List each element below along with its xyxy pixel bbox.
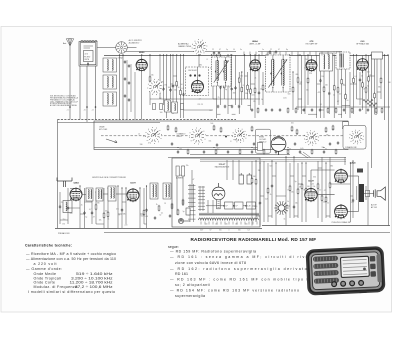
svg-text:0,1: 0,1 — [325, 149, 327, 151]
svg-text:FILTRO: FILTRO — [84, 56, 91, 58]
wire: sub-bus y99 — [150, 98, 260, 100]
volume control box — [256, 129, 271, 153]
wire: heater line with dots — [206, 205, 250, 207]
tube V3 6AT6 — [306, 59, 317, 72]
svg-text:100: 100 — [160, 112, 163, 114]
svg-text:47: 47 — [278, 49, 280, 51]
magic eye tube — [271, 137, 286, 155]
svg-text:5p: 5p — [225, 89, 227, 91]
svg-text:— RD 159 MF: Radiofono supe: — RD 159 MF: Radiofono supermeraviglia — [170, 249, 256, 253]
svg-text:RIV. RAPP. BF: RIV. RAPP. BF — [306, 42, 319, 45]
wire: long bus y157 — [168, 157, 346, 159]
svg-text:330: 330 — [378, 87, 381, 89]
svg-text:AP 105: AP 105 — [371, 206, 377, 209]
svg-text:a 220 volt: a 220 volt — [34, 262, 57, 266]
svg-text:— RD 161 : senza gamma a: — RD 161 : senza gamma a MF; circuiti di… — [170, 255, 317, 259]
svg-text:4,7: 4,7 — [337, 101, 339, 103]
svg-text:5p: 5p — [226, 49, 228, 51]
electrolytic capacitor 2 — [247, 175, 252, 184]
svg-text:68k: 68k — [296, 74, 299, 76]
svg-text:GRUPPO A.F. FM E CONVERT: GRUPPO A.F. FM E CONVERTITORE MF — [92, 176, 127, 179]
loudspeaker — [374, 187, 386, 200]
svg-text:25: 25 — [333, 95, 335, 97]
svg-text:220: 220 — [309, 73, 312, 75]
svg-text:RADIORICEVITORE RADIOMARELLI M: RADIORICEVITORE RADIOMARELLI Mod. RD 157… — [191, 237, 317, 242]
FM IF parts — [158, 205, 160, 212]
junction dots heater — [223, 205, 225, 207]
gang chain box — [94, 121, 348, 150]
junction dots mid bus — [177, 147, 178, 148]
svg-text:220: 220 — [197, 104, 200, 106]
svg-text:47k: 47k — [326, 134, 329, 136]
wire: antenna lead — [69, 46, 71, 120]
mains plug — [178, 218, 190, 223]
svg-text:220: 220 — [174, 90, 177, 92]
svg-text:100: 100 — [307, 186, 310, 188]
wire: V1 drop — [141, 71, 143, 120]
power wires — [176, 168, 178, 215]
filter box details — [84, 45, 94, 47]
svg-text:330: 330 — [97, 202, 100, 204]
svg-text:6,3: 6,3 — [248, 230, 250, 232]
IF transformer MF1 — [212, 57, 232, 86]
svg-text:6AQ5: 6AQ5 — [350, 162, 356, 165]
svg-text:segue:: segue: — [168, 245, 179, 249]
svg-text:AL 3° GRUPPO: AL 3° GRUPPO — [129, 39, 143, 42]
svg-text:J.2: J.2 — [92, 110, 94, 112]
svg-text:4,7: 4,7 — [339, 93, 341, 95]
lower parts row right — [251, 108, 253, 112]
wire: mid bus y147 — [94, 147, 258, 149]
tick row between buses — [243, 52, 245, 56]
svg-text:1k: 1k — [287, 201, 289, 203]
svg-text:ONDE: ONDE — [99, 127, 105, 129]
resistor zigzag right — [363, 99, 373, 102]
wire: verticals near output — [367, 162, 369, 226]
coil box small 1 — [165, 100, 171, 112]
svg-text:BF FINALE MA: BF FINALE MA — [356, 42, 369, 45]
wire: box to CV — [97, 47, 116, 49]
FM dipole antenna — [57, 178, 72, 188]
svg-text:Caratteristiche tecniche:: Caratteristiche tecniche: — [25, 243, 72, 247]
svg-text:6BE6: 6BE6 — [139, 52, 145, 54]
svg-text:0,1: 0,1 — [351, 202, 353, 204]
coil unit L3 onde corte — [103, 92, 117, 106]
svg-text:500: 500 — [253, 176, 256, 178]
coil unit L1 onde medie — [103, 58, 117, 72]
svg-text:5p: 5p — [295, 181, 297, 183]
svg-text:330: 330 — [313, 177, 316, 179]
tube V8 6AB4 AF FM — [70, 187, 83, 201]
svg-text:125: 125 — [215, 223, 218, 225]
svg-text:50: 50 — [346, 100, 348, 102]
rectifier base stem — [217, 200, 221, 209]
svg-text:250: 250 — [305, 59, 308, 61]
svg-text:15k: 15k — [208, 141, 211, 143]
svg-text:1° MF: 1° MF — [213, 55, 219, 57]
svg-text:100: 100 — [179, 149, 182, 151]
svg-text:47: 47 — [148, 142, 150, 144]
svg-text:8: 8 — [243, 85, 244, 87]
svg-text:PRESA FONO: PRESA FONO — [58, 232, 70, 235]
svg-text:320: 320 — [238, 230, 241, 232]
radio lower grille — [314, 278, 339, 284]
svg-text:25: 25 — [61, 202, 63, 204]
svg-text:15k: 15k — [313, 186, 316, 188]
mid band parts — [167, 125, 169, 131]
svg-text:8: 8 — [288, 189, 289, 191]
terminal ladder — [188, 184, 196, 222]
coil unit L fm1 — [86, 188, 93, 201]
svg-text:2k: 2k — [138, 134, 140, 136]
svg-text:1n: 1n — [262, 49, 264, 51]
pot box — [258, 143, 263, 151]
coil unit L fm2 — [96, 188, 103, 201]
svg-text:8: 8 — [207, 59, 208, 61]
svg-text:22: 22 — [270, 49, 272, 51]
svg-text:220: 220 — [125, 224, 128, 226]
svg-text:5p: 5p — [183, 211, 185, 213]
svg-text:10: 10 — [233, 49, 235, 51]
small box row y103 — [153, 104, 156, 110]
svg-text:Modulaz. di Frequenza: Modulaz. di Frequenza — [34, 285, 78, 289]
oscillator dashed box — [186, 67, 209, 96]
wire: lower AVC bus — [58, 122, 161, 124]
svg-text:0,05: 0,05 — [300, 148, 303, 150]
svg-text:330: 330 — [233, 93, 236, 95]
wire: selector stem — [198, 54, 200, 67]
svg-text:0,05: 0,05 — [265, 198, 268, 200]
svg-text:supermeraviglia: supermeraviglia — [175, 294, 205, 298]
svg-text:10k: 10k — [295, 202, 298, 204]
svg-text:10k: 10k — [151, 74, 154, 76]
wire: gang diagonals — [301, 153, 309, 158]
svg-text:500: 500 — [269, 166, 272, 168]
svg-text:J.0: J.0 — [84, 110, 86, 112]
svg-text:3n: 3n — [240, 49, 242, 51]
svg-text:160: 160 — [235, 223, 238, 225]
junction dot gang — [225, 136, 227, 138]
tube V2 6BA6 — [250, 59, 261, 72]
FM balun box — [63, 201, 72, 213]
svg-text:100: 100 — [325, 85, 328, 87]
radio push buttons — [370, 256, 376, 262]
wire: FM ground bus — [55, 228, 262, 230]
svg-text:4,7: 4,7 — [199, 98, 201, 100]
oscillator padder dots — [189, 74, 191, 76]
antenna AM — [66, 38, 74, 46]
svg-text:5p: 5p — [143, 136, 145, 138]
svg-text:2k: 2k — [270, 194, 272, 196]
tube V7 6AQ5 — [334, 204, 347, 219]
svg-text:47: 47 — [300, 82, 302, 84]
svg-text:MAGICO: MAGICO — [259, 141, 267, 144]
mains transformer windings — [199, 213, 260, 220]
primary winding ladder — [198, 186, 205, 211]
svg-text:OSCILLAT.: OSCILLAT. — [188, 69, 197, 72]
svg-text:47k: 47k — [318, 92, 321, 94]
svg-text:68k: 68k — [235, 139, 238, 141]
svg-text:— Gamme d’onde:: — Gamme d’onde: — [26, 267, 62, 271]
wire: AVC dashed bus — [58, 119, 237, 121]
svg-text:AI CAPI DELLA BOBINA STESSA: AI CAPI DELLA BOBINA STESSA — [50, 104, 77, 107]
svg-text:15k: 15k — [186, 165, 189, 167]
svg-text:50: 50 — [181, 84, 183, 86]
svg-text:47: 47 — [192, 179, 194, 181]
wire: top HT bus — [104, 55, 388, 57]
wire lattice: upper RF/IF band — [149, 54, 382, 118]
svg-text:4,7: 4,7 — [319, 189, 321, 191]
rectifier tube 5Y3 — [212, 183, 225, 200]
svg-text:1k: 1k — [107, 219, 109, 221]
svg-text:50: 50 — [159, 215, 161, 217]
wire lattice: FM strip — [59, 185, 148, 228]
svg-text:ALTOP.: ALTOP. — [371, 204, 378, 207]
svg-text:0,05: 0,05 — [251, 95, 254, 97]
MF1 top trimmers — [213, 51, 215, 55]
wire: box drop 2 — [86, 66, 88, 122]
svg-text:500: 500 — [210, 123, 213, 125]
svg-text:12AT7: 12AT7 — [130, 182, 137, 185]
rotary switch wafer S4 — [304, 131, 319, 146]
svg-text:22: 22 — [212, 49, 214, 51]
small box gang right — [343, 122, 349, 129]
row parts under gang — [177, 150, 179, 154]
wire: right edge vertical — [388, 55, 390, 226]
heater tap box — [247, 202, 256, 209]
svg-text:CAMBIO TENS.: CAMBIO TENS. — [178, 45, 192, 48]
rotary switch wafer cambio tensione — [192, 39, 208, 55]
top right box — [372, 52, 383, 59]
svg-text:15k: 15k — [253, 101, 256, 103]
tube V9 12AT7 conv FM — [127, 188, 140, 202]
coil unit L if1 — [150, 183, 158, 199]
radio cabinet illustration — [306, 246, 386, 295]
svg-text:6BA6: 6BA6 — [252, 40, 258, 43]
svg-text:2k: 2k — [254, 77, 256, 79]
wire: bus y154.5 — [190, 154, 290, 156]
tube V4 6V6 — [356, 58, 368, 72]
svg-text:15k: 15k — [240, 75, 243, 77]
svg-text:1k: 1k — [261, 99, 263, 101]
svg-text:25: 25 — [201, 104, 203, 106]
svg-text:100: 100 — [168, 87, 171, 89]
svg-text:47: 47 — [324, 190, 326, 192]
svg-text:— Ricevitore MA - MF a 9: — Ricevitore MA - MF a 9 valvole + occhi… — [26, 252, 116, 256]
svg-text:100: 100 — [367, 71, 370, 73]
svg-text:I modelli similari si diff: I modelli similari si differenziano per … — [28, 290, 115, 294]
selenium rectifier starburst — [274, 201, 288, 215]
svg-text:25: 25 — [259, 204, 261, 206]
svg-text:10k: 10k — [174, 85, 177, 87]
output transformer — [359, 184, 365, 202]
svg-text:25: 25 — [164, 203, 166, 205]
svg-text:1k: 1k — [283, 218, 285, 220]
svg-text:140: 140 — [225, 223, 228, 225]
coil unit L if2 — [163, 183, 171, 199]
filter choke — [336, 52, 350, 69]
svg-text:0: 0 — [229, 230, 230, 232]
wire: FM links — [70, 187, 76, 189]
fuse — [186, 208, 190, 215]
rotary switch wafer S2 — [189, 128, 206, 145]
wire: upper parallel bus — [120, 51, 237, 53]
switch arrow — [106, 139, 117, 143]
ballast resistor 2 — [182, 166, 185, 176]
radio dial window — [340, 256, 369, 277]
svg-text:2° MF: 2° MF — [267, 53, 273, 55]
electrolytic capacitor 1 — [239, 175, 244, 184]
svg-text:4 MΩ: 4 MΩ — [118, 58, 123, 60]
svg-text:50: 50 — [289, 149, 291, 151]
svg-text:47,5: 47,5 — [85, 54, 89, 56]
svg-text:ALL’ANODO: ALL’ANODO — [129, 42, 140, 45]
svg-text:250: 250 — [62, 219, 65, 221]
svg-text:250: 250 — [254, 206, 257, 208]
wire: splitter link — [317, 194, 334, 196]
svg-text:320: 320 — [219, 230, 222, 232]
svg-text:2k: 2k — [156, 204, 158, 206]
svg-text:0,05: 0,05 — [283, 97, 286, 99]
svg-text:5Y3-GT: 5Y3-GT — [219, 164, 226, 166]
coil unit L2 onde tropicali — [103, 75, 117, 89]
cap row y105 — [217, 105, 219, 109]
rotary switch wafer S1b — [145, 127, 162, 144]
wire: bottom return bus — [104, 232, 390, 234]
wire: coil stack verticals — [119, 55, 121, 120]
tuning condenser CV — [116, 42, 128, 54]
svg-text:50: 50 — [327, 203, 329, 205]
svg-text:— Alimentazione con c.a. 5: — Alimentazione con c.a. 50 Hz per tensi… — [26, 257, 116, 261]
svg-text:110: 110 — [205, 223, 208, 225]
ballast resistor 1 — [176, 166, 179, 176]
wire lattice: audio band — [251, 156, 354, 225]
wire: box drop 3 — [95, 66, 97, 120]
radio right edge shade — [376, 254, 382, 282]
svg-text:RD 161: RD 161 — [175, 272, 188, 276]
MF2 top trimmers — [269, 50, 271, 54]
svg-text:6AB4: 6AB4 — [73, 182, 79, 185]
coil box small 2 — [172, 102, 178, 113]
svg-text:RADDRIZZATRICE: RADDRIZZATRICE — [215, 166, 230, 169]
svg-text:so; 2 altoparlanti: so; 2 altoparlanti — [175, 283, 210, 287]
svg-text:PUSH-PULL FINALE FM: PUSH-PULL FINALE FM — [332, 221, 351, 224]
svg-text:AMPL. 2a MF: AMPL. 2a MF — [250, 42, 262, 45]
wire: verticals above electrolytics — [226, 160, 228, 180]
wire: right ground bus — [262, 225, 390, 227]
dark component — [357, 169, 363, 173]
radio feet — [359, 290, 366, 293]
wire: vertical x371 — [371, 55, 373, 168]
wire: audio couplings — [347, 175, 358, 177]
svg-text:250: 250 — [291, 192, 294, 194]
wire: CV to V1 — [127, 47, 136, 49]
radio grille slats — [313, 256, 338, 262]
svg-text:ALIMENT.: ALIMENT. — [176, 177, 184, 180]
wire: tube cap links — [254, 56, 256, 60]
svg-text:0,1: 0,1 — [161, 212, 163, 214]
svg-text:68k: 68k — [330, 166, 333, 168]
wire: box drop 1 — [79, 66, 81, 120]
svg-text:10k: 10k — [332, 129, 335, 131]
coil unit L detector — [320, 53, 333, 71]
winding tap ticks — [200, 222, 202, 225]
svg-text:50: 50 — [178, 87, 180, 89]
svg-text:500: 500 — [288, 93, 291, 95]
svg-text:J.1: J.1 — [67, 110, 69, 112]
svg-text:4,7: 4,7 — [217, 149, 219, 151]
rotary switch wafer S5 — [349, 130, 364, 145]
junction dots with J labels — [69, 106, 71, 108]
svg-text:COMANDO MF: COMANDO MF — [345, 146, 357, 149]
svg-text:M-T-C-MF: M-T-C-MF — [99, 129, 108, 131]
tube V5 12AX7 invertitrice — [304, 188, 317, 203]
svg-text:5p: 5p — [85, 216, 87, 218]
svg-text:220: 220 — [245, 223, 248, 225]
svg-text:68k: 68k — [199, 65, 202, 67]
wire: left loop vertical — [57, 120, 59, 229]
svg-text:UNICO: UNICO — [177, 136, 183, 138]
svg-text:8: 8 — [230, 141, 231, 143]
coil unit L fm3 — [108, 186, 116, 201]
svg-text:— RD 163 MF : come RD 161 M: — RD 163 MF : come RD 161 MF con mobile … — [170, 278, 317, 282]
radio knobs — [332, 282, 337, 287]
svg-text:100: 100 — [69, 213, 72, 215]
svg-text:— RD 164 MF: come RD 163 MF: — RD 164 MF: come RD 163 MF versione rad… — [170, 289, 299, 293]
S5 box — [343, 126, 366, 150]
svg-text:68k: 68k — [245, 93, 248, 95]
pilot lamp box 2 — [235, 202, 244, 209]
svg-text:87,2 ÷ 100,6 MHz: 87,2 ÷ 100,6 MHz — [75, 285, 113, 289]
svg-text:47: 47 — [93, 216, 95, 218]
svg-text:1k: 1k — [296, 134, 298, 136]
svg-text:ALIMENTAZ.: ALIMENTAZ. — [178, 43, 189, 46]
svg-text:250: 250 — [291, 123, 294, 125]
svg-text:1k: 1k — [260, 88, 262, 90]
tube V osc (triodo) — [191, 80, 204, 94]
svg-text:12AX7: 12AX7 — [308, 180, 315, 183]
svg-text:0,1: 0,1 — [320, 104, 322, 106]
svg-text:500: 500 — [141, 215, 144, 217]
svg-text:330: 330 — [140, 144, 143, 146]
svg-text:68k: 68k — [123, 214, 126, 216]
svg-text:220: 220 — [323, 201, 326, 203]
speaker terminal box — [366, 190, 370, 196]
svg-text:47: 47 — [229, 86, 231, 88]
svg-text:4,7: 4,7 — [89, 209, 91, 211]
svg-text:47k: 47k — [116, 209, 119, 211]
IF transformer MF2 — [266, 55, 291, 92]
rotary switch wafer S3 — [232, 128, 246, 142]
svg-text:47: 47 — [219, 49, 221, 51]
wire: cable band — [200, 159, 346, 161]
pilot lamp box 1 — [225, 202, 234, 209]
antenna filter box — [79, 40, 97, 66]
gang dashed mechanical line — [101, 135, 352, 137]
junction dots top bus — [119, 54, 120, 55]
svg-text:8p: 8p — [286, 49, 288, 51]
svg-text:330: 330 — [388, 82, 391, 84]
tube V6 6AQ5 — [334, 169, 347, 184]
tube V1 6BE6 convertitore — [136, 59, 148, 72]
svg-text:10k: 10k — [99, 219, 102, 221]
power supply box — [172, 158, 260, 227]
coil stack trimmers — [124, 60, 126, 64]
svg-text:220: 220 — [253, 149, 256, 151]
rotary switch wafer S1a — [147, 79, 163, 95]
svg-text:10k: 10k — [306, 90, 309, 92]
svg-text:zione con valvola 6AV6 inv: zione con valvola 6AV6 invece di 6T8 — [175, 261, 246, 265]
